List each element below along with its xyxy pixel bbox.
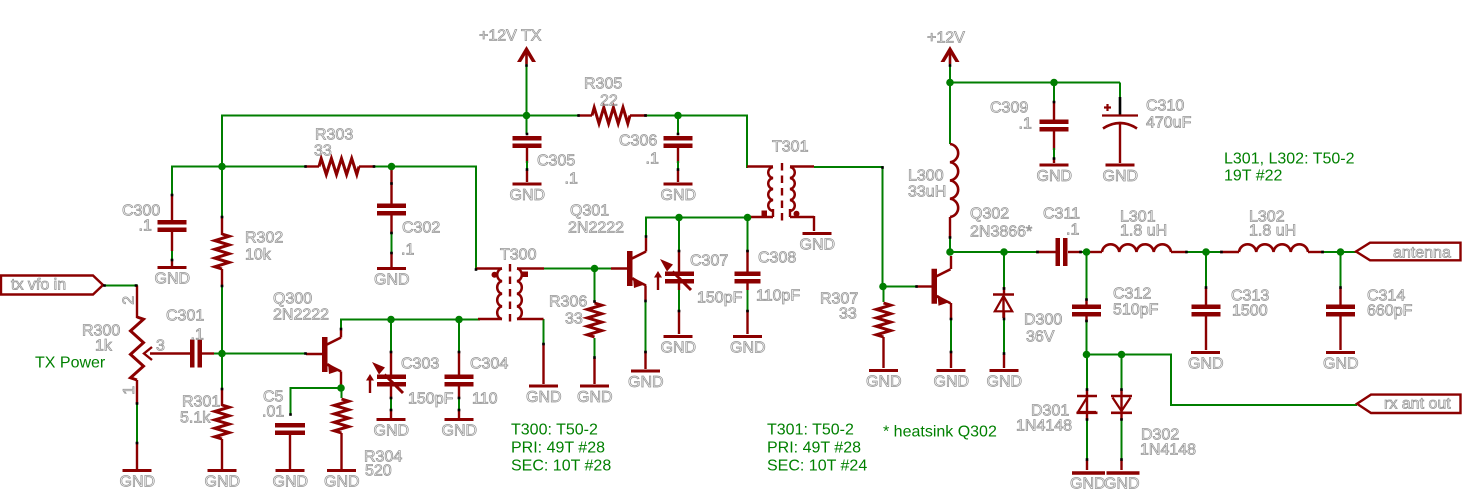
svg-text:GND: GND — [628, 374, 664, 391]
svg-text:GND: GND — [1103, 168, 1139, 185]
svg-text:GND: GND — [800, 237, 836, 254]
svg-text:36V: 36V — [1026, 329, 1055, 346]
svg-text:GND: GND — [1037, 168, 1073, 185]
svg-text:C307: C307 — [690, 253, 728, 270]
svg-text:T300: T300 — [500, 247, 537, 264]
svg-text:2N2222: 2N2222 — [568, 220, 624, 237]
svg-text:C306: C306 — [619, 133, 657, 150]
svg-text:PRI: 49T #28: PRI: 49T #28 — [511, 440, 605, 457]
svg-text:R305: R305 — [584, 76, 622, 93]
svg-text:SEC: 10T #28: SEC: 10T #28 — [511, 458, 611, 475]
svg-text:GND: GND — [1104, 476, 1140, 493]
svg-text:1.8 uH: 1.8 uH — [1120, 223, 1167, 240]
svg-text:C305: C305 — [537, 153, 575, 170]
svg-text:33: 33 — [314, 143, 332, 160]
svg-text:GND: GND — [1070, 476, 1106, 493]
svg-text:PRI: 49T #28: PRI: 49T #28 — [767, 440, 861, 457]
svg-text:GND: GND — [526, 389, 562, 406]
svg-text:GND: GND — [1188, 356, 1224, 373]
svg-text:GND: GND — [577, 389, 613, 406]
svg-text:520: 520 — [365, 463, 392, 480]
svg-text:GND: GND — [374, 423, 410, 440]
svg-text:110pF: 110pF — [756, 288, 800, 305]
svg-text:22: 22 — [600, 93, 618, 110]
svg-text:.1: .1 — [1066, 222, 1079, 239]
svg-text:C304: C304 — [470, 356, 508, 373]
svg-text:GND: GND — [730, 340, 766, 357]
svg-text:TX Power: TX Power — [35, 355, 106, 372]
svg-text:C308: C308 — [758, 250, 796, 267]
svg-text:rx ant out: rx ant out — [1384, 396, 1451, 413]
svg-text:R302: R302 — [245, 230, 283, 247]
svg-text:GND: GND — [1323, 356, 1359, 373]
svg-text:R303: R303 — [315, 127, 353, 144]
svg-text:C310: C310 — [1146, 98, 1184, 115]
svg-text:+12V: +12V — [927, 30, 965, 47]
svg-text:10k: 10k — [245, 247, 272, 264]
svg-text:GND: GND — [661, 340, 697, 357]
svg-text:GND: GND — [324, 474, 360, 491]
svg-text:GND: GND — [205, 474, 241, 491]
svg-text:L300: L300 — [908, 168, 944, 185]
svg-text:* heatsink Q302: * heatsink Q302 — [883, 424, 997, 441]
svg-text:C303: C303 — [401, 356, 439, 373]
svg-text:C302: C302 — [402, 220, 440, 237]
svg-text:1N4148: 1N4148 — [1140, 442, 1196, 459]
svg-text:+12V TX: +12V TX — [479, 28, 542, 45]
svg-text:GND: GND — [442, 423, 478, 440]
svg-text:1N4148: 1N4148 — [1016, 418, 1072, 435]
svg-text:1500: 1500 — [1232, 303, 1268, 320]
svg-text:470uF: 470uF — [1146, 115, 1192, 132]
svg-text:GND: GND — [510, 187, 546, 204]
svg-text:Q300: Q300 — [273, 291, 312, 308]
svg-text:T301: T301 — [772, 139, 809, 156]
svg-text:antenna: antenna — [1393, 245, 1451, 262]
svg-text:.1: .1 — [139, 218, 152, 235]
svg-text:L301, L302: T50-2: L301, L302: T50-2 — [1224, 151, 1355, 168]
svg-text:2: 2 — [121, 296, 138, 305]
svg-text:.1: .1 — [1019, 116, 1032, 133]
svg-text:1: 1 — [121, 386, 138, 395]
svg-text:SEC: 10T #24: SEC: 10T #24 — [767, 458, 867, 475]
svg-text:1.8 uH: 1.8 uH — [1249, 223, 1296, 240]
svg-text:D300: D300 — [1024, 312, 1062, 329]
svg-text:150pF: 150pF — [697, 290, 743, 307]
svg-text:5.1k: 5.1k — [180, 410, 211, 427]
svg-text:Q302: Q302 — [970, 206, 1009, 223]
svg-text:T301: T50-2: T301: T50-2 — [767, 422, 854, 439]
svg-text:19T #22: 19T #22 — [1224, 168, 1283, 185]
svg-text:R306: R306 — [549, 294, 587, 311]
svg-text:GND: GND — [661, 187, 697, 204]
svg-text:GND: GND — [273, 474, 309, 491]
svg-text:.1: .1 — [191, 327, 204, 344]
svg-text:.01: .01 — [262, 404, 284, 421]
svg-text:GND: GND — [155, 271, 191, 288]
svg-text:C312: C312 — [1113, 286, 1151, 303]
svg-text:510pF: 510pF — [1113, 302, 1159, 319]
svg-text:.1: .1 — [646, 151, 659, 168]
svg-text:GND: GND — [987, 374, 1023, 391]
svg-text:3: 3 — [156, 338, 165, 355]
svg-text:GND: GND — [866, 374, 902, 391]
svg-text:GND: GND — [934, 374, 970, 391]
svg-text:660pF: 660pF — [1367, 303, 1413, 320]
svg-text:GND: GND — [374, 272, 410, 289]
svg-text:tx vfo in: tx vfo in — [11, 277, 66, 294]
svg-text:150pF: 150pF — [408, 391, 454, 408]
svg-text:33: 33 — [565, 311, 583, 328]
svg-text:Q301: Q301 — [570, 203, 609, 220]
svg-text:C311: C311 — [1043, 206, 1080, 223]
svg-text:33: 33 — [839, 306, 857, 323]
svg-text:C301: C301 — [166, 308, 204, 325]
svg-text:2N2222: 2N2222 — [273, 307, 329, 324]
svg-text:.1: .1 — [401, 242, 414, 259]
svg-text:2N3866*: 2N3866* — [970, 224, 1032, 241]
svg-text:R301: R301 — [182, 394, 220, 411]
svg-text:.1: .1 — [565, 171, 578, 188]
svg-text:C309: C309 — [990, 100, 1028, 117]
svg-text:GND: GND — [120, 474, 156, 491]
svg-text:1k: 1k — [95, 338, 113, 355]
svg-text:T300: T50-2: T300: T50-2 — [511, 422, 598, 439]
svg-text:33uH: 33uH — [908, 184, 946, 201]
svg-text:110: 110 — [472, 391, 498, 408]
